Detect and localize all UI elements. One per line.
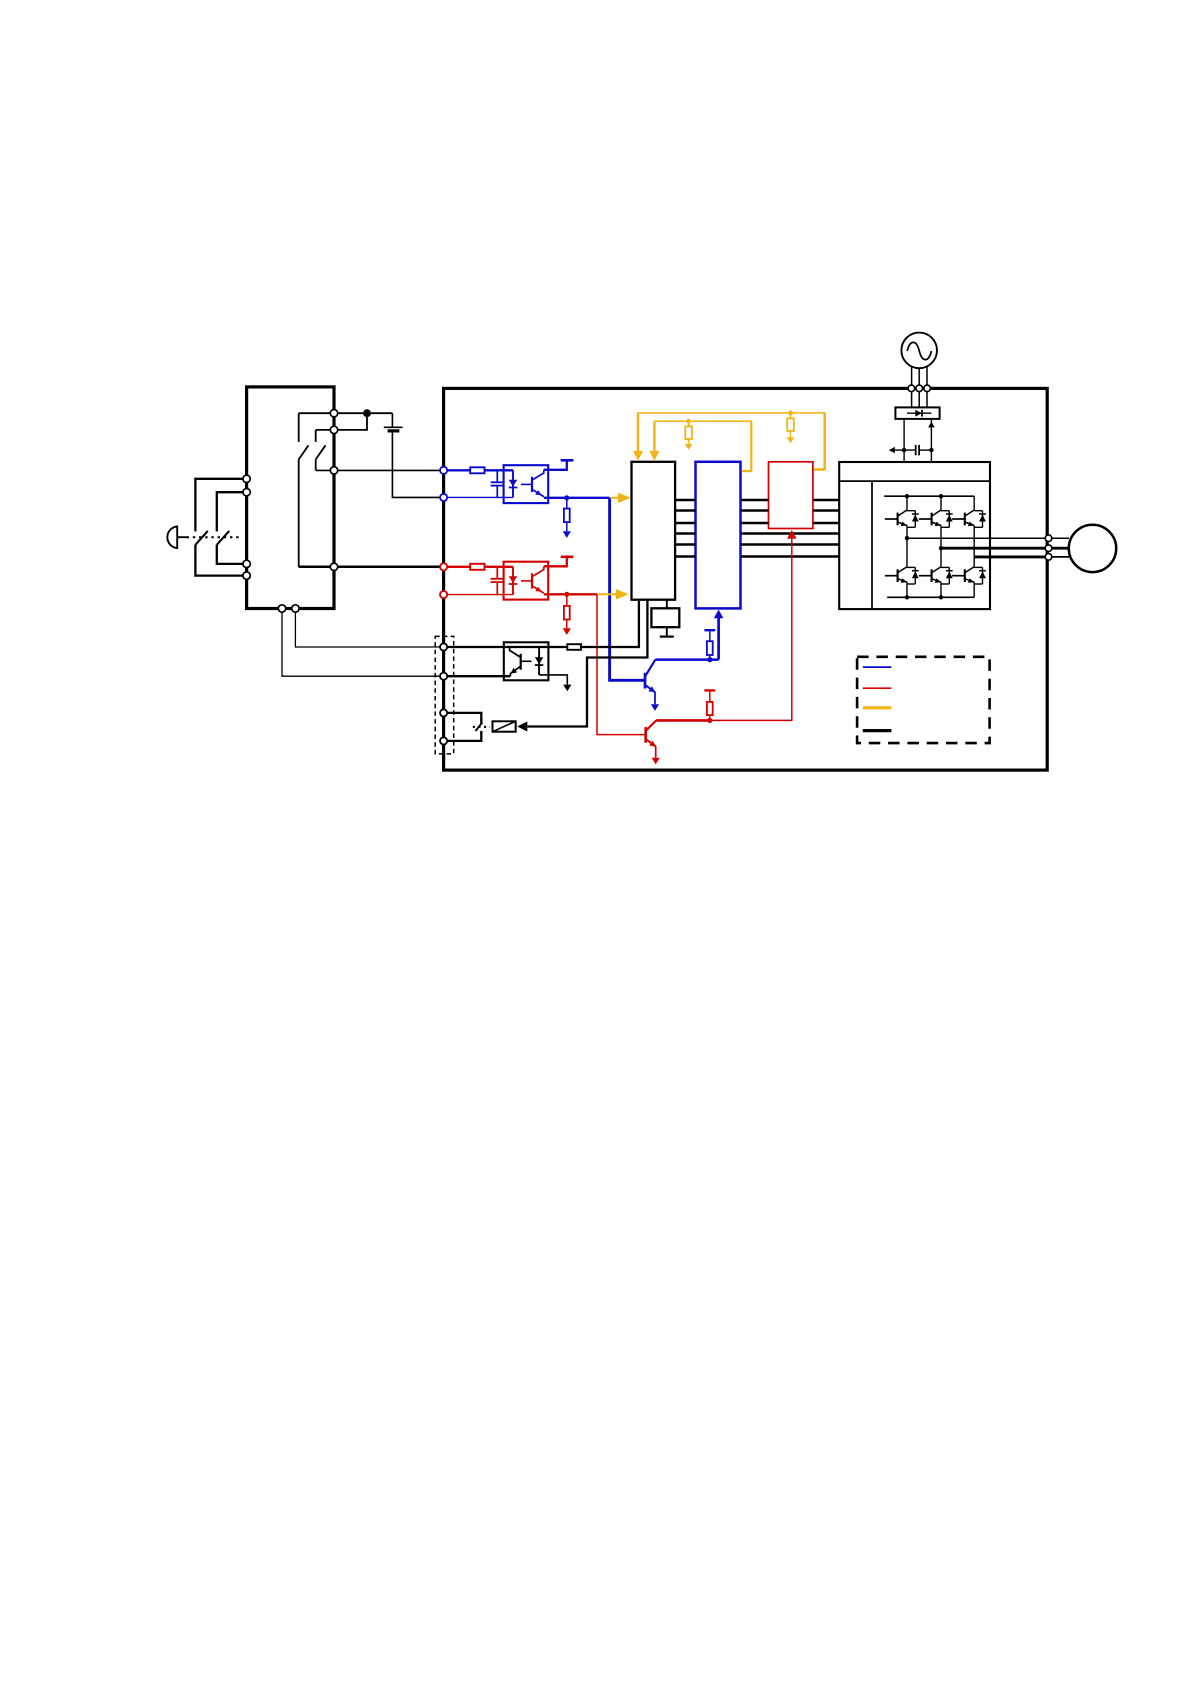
wire R7 to CPU block (581, 600, 639, 647)
inverter power module block (839, 462, 990, 609)
controller enclosure box (247, 387, 334, 609)
AC source G1 (901, 333, 937, 369)
contact S1a (outer NC contact) (195, 479, 246, 576)
drive enclosure box (444, 388, 1048, 770)
wire controller bottom terminal 1 to digital input (282, 609, 444, 677)
wire blue signal elbow to Q1 base (610, 498, 645, 681)
contact S1b (inner NC contact) (217, 492, 247, 564)
wire blue start input (444, 469, 471, 471)
bus fault block to inverter (813, 500, 839, 523)
legend blue sample (863, 666, 892, 668)
resistor R6 pull-up with Vcc bar (704, 690, 715, 720)
wire red start input (444, 566, 471, 568)
node supply inner dot (686, 419, 691, 424)
wire T1 to battery node (299, 412, 393, 414)
resistor R7 (567, 644, 581, 650)
resistor R9 (yellow inner) (685, 421, 693, 450)
controller bottom-edge terminals (278, 605, 299, 612)
opto U2 phototransistor (521, 566, 544, 593)
wire red return (444, 594, 513, 596)
IGBT Q8 bottom leg3 (952, 567, 986, 584)
opto U1 phototransistor (521, 470, 544, 497)
transistor Q2 (red) (646, 720, 660, 764)
wire status output bottom (444, 675, 511, 677)
DC- rail (887, 595, 974, 599)
internal switch K1b (316, 430, 326, 471)
motor M1 (1069, 525, 1116, 572)
legend red sample (863, 687, 892, 689)
wire U2 emitter output (544, 593, 597, 595)
legend box (857, 657, 990, 743)
opto U3 output transistor (510, 647, 532, 676)
IGBT Q7 bottom leg2 (919, 567, 953, 584)
phase W output wire (974, 555, 1048, 558)
controller right-edge terminals (330, 410, 337, 571)
yellow arrow into CPU from blue channel (611, 493, 631, 503)
opto U3 LED (535, 647, 543, 675)
wire Q2 collector thin run to fault block (710, 530, 797, 721)
wire Q1 collector run (655, 658, 718, 661)
wire relay loop terminal 3 (444, 713, 482, 724)
resistor R3 pull-up with Vcc bar (704, 630, 715, 659)
node emitter junction dot (red) (564, 592, 569, 597)
node emitter junction dot (blue) (564, 495, 569, 500)
yellow arrow into CPU from red channel (598, 589, 629, 599)
wire stop chain to red terminal (299, 566, 444, 569)
AC inlet terminals (908, 385, 930, 392)
DC link capacitor C3 (889, 445, 934, 455)
rectifier D1 (895, 407, 939, 419)
wire U3 LED cathode to ground arrow (539, 675, 571, 691)
CPU block U4 (632, 462, 676, 600)
bus driver to inverter lower (741, 534, 840, 557)
phase U output wire (905, 536, 1049, 540)
node supply outer dot (788, 411, 793, 416)
wire red signal elbow to Q2 base (597, 594, 646, 734)
bus CPU to driver (675, 500, 695, 557)
wire U2 collector to Vcc rail (544, 558, 567, 567)
wire U1 emitter output (544, 497, 610, 499)
supply loop inner (yellow) (649, 421, 751, 471)
IGBT Q5 top leg3 (952, 510, 986, 527)
relay K2 coil (493, 721, 516, 731)
wire U1 collector to Vcc rail (544, 461, 567, 470)
wire blue return (444, 496, 513, 498)
opto U1 LED (509, 470, 518, 497)
drive input terminals red (440, 563, 447, 598)
fault logic block U6 (red) (769, 462, 813, 529)
pushbutton actuator dotted link (187, 536, 241, 538)
legend yellow sample (863, 706, 892, 709)
wire Q2 collector run thick (656, 719, 710, 722)
wire controller bottom terminal 2 to digital input (295, 609, 443, 648)
terminal strip dashed box (435, 636, 454, 754)
AC feed wires (912, 366, 927, 407)
Vcc rail bar (blue) (561, 459, 574, 462)
resistor R5 pulldown (563, 594, 571, 635)
transistor Q1 (blue) (645, 660, 659, 711)
phase V output wire (939, 546, 1049, 550)
IGBT Q3 top leg1 (885, 510, 919, 527)
DC link wires (904, 419, 935, 462)
wire T2 riser (316, 413, 367, 430)
opto U2 LED (509, 567, 518, 595)
wire Q1 collector to blue block arrow (714, 610, 724, 660)
drive input terminals blue (440, 467, 447, 501)
supply loop outer (yellow) (633, 413, 825, 470)
opto-coupler U1 body (504, 465, 549, 503)
resistor R8 (yellow outer) (787, 413, 795, 443)
resistor R1 (470, 467, 484, 473)
DC+ rail (884, 494, 974, 498)
resistor R4 (470, 564, 484, 570)
Vcc rail bar (red) (561, 555, 574, 558)
node R6 junction dot (707, 718, 712, 723)
controller left-edge terminals (243, 475, 250, 579)
gate driver block U5 (blue) (696, 462, 741, 609)
relay K2 dotted link (473, 726, 490, 728)
resistor R2 pulldown (563, 498, 571, 538)
leg 1 vertical (906, 496, 908, 597)
motor feed wires (1049, 538, 1070, 557)
leg 3 vertical (973, 496, 975, 597)
legend black sample (863, 729, 892, 732)
motor output terminals (1045, 535, 1052, 560)
IGBT Q4 top leg2 (919, 510, 953, 527)
bus driver to fault block (741, 500, 769, 523)
pushbutton S1 head (167, 526, 186, 548)
leg 2 vertical (940, 496, 942, 597)
opto-coupler U2 body (504, 562, 549, 600)
internal switch K1a (299, 413, 309, 567)
node A junction dot (363, 409, 371, 417)
wire status output top (444, 646, 568, 648)
capacitor C2 (491, 567, 504, 595)
wire R4 to opto U2 (485, 566, 514, 568)
crystal Y1 (651, 600, 679, 637)
relay contact K2 blade (475, 723, 482, 732)
capacitor C1 (491, 470, 504, 497)
wire relay loop terminal 4 (444, 731, 482, 741)
IGBT Q6 bottom leg1 (885, 567, 919, 584)
battery B1 (384, 413, 444, 497)
wire run output to blue terminal (316, 469, 444, 471)
wire CPU to relay coil with arrow (517, 600, 647, 732)
opto-coupler U3 body (reverse) (504, 642, 549, 680)
wire R1 to opto U1 (485, 469, 514, 471)
node R3 junction dot (707, 657, 712, 662)
drive input terminals black (440, 643, 447, 744)
